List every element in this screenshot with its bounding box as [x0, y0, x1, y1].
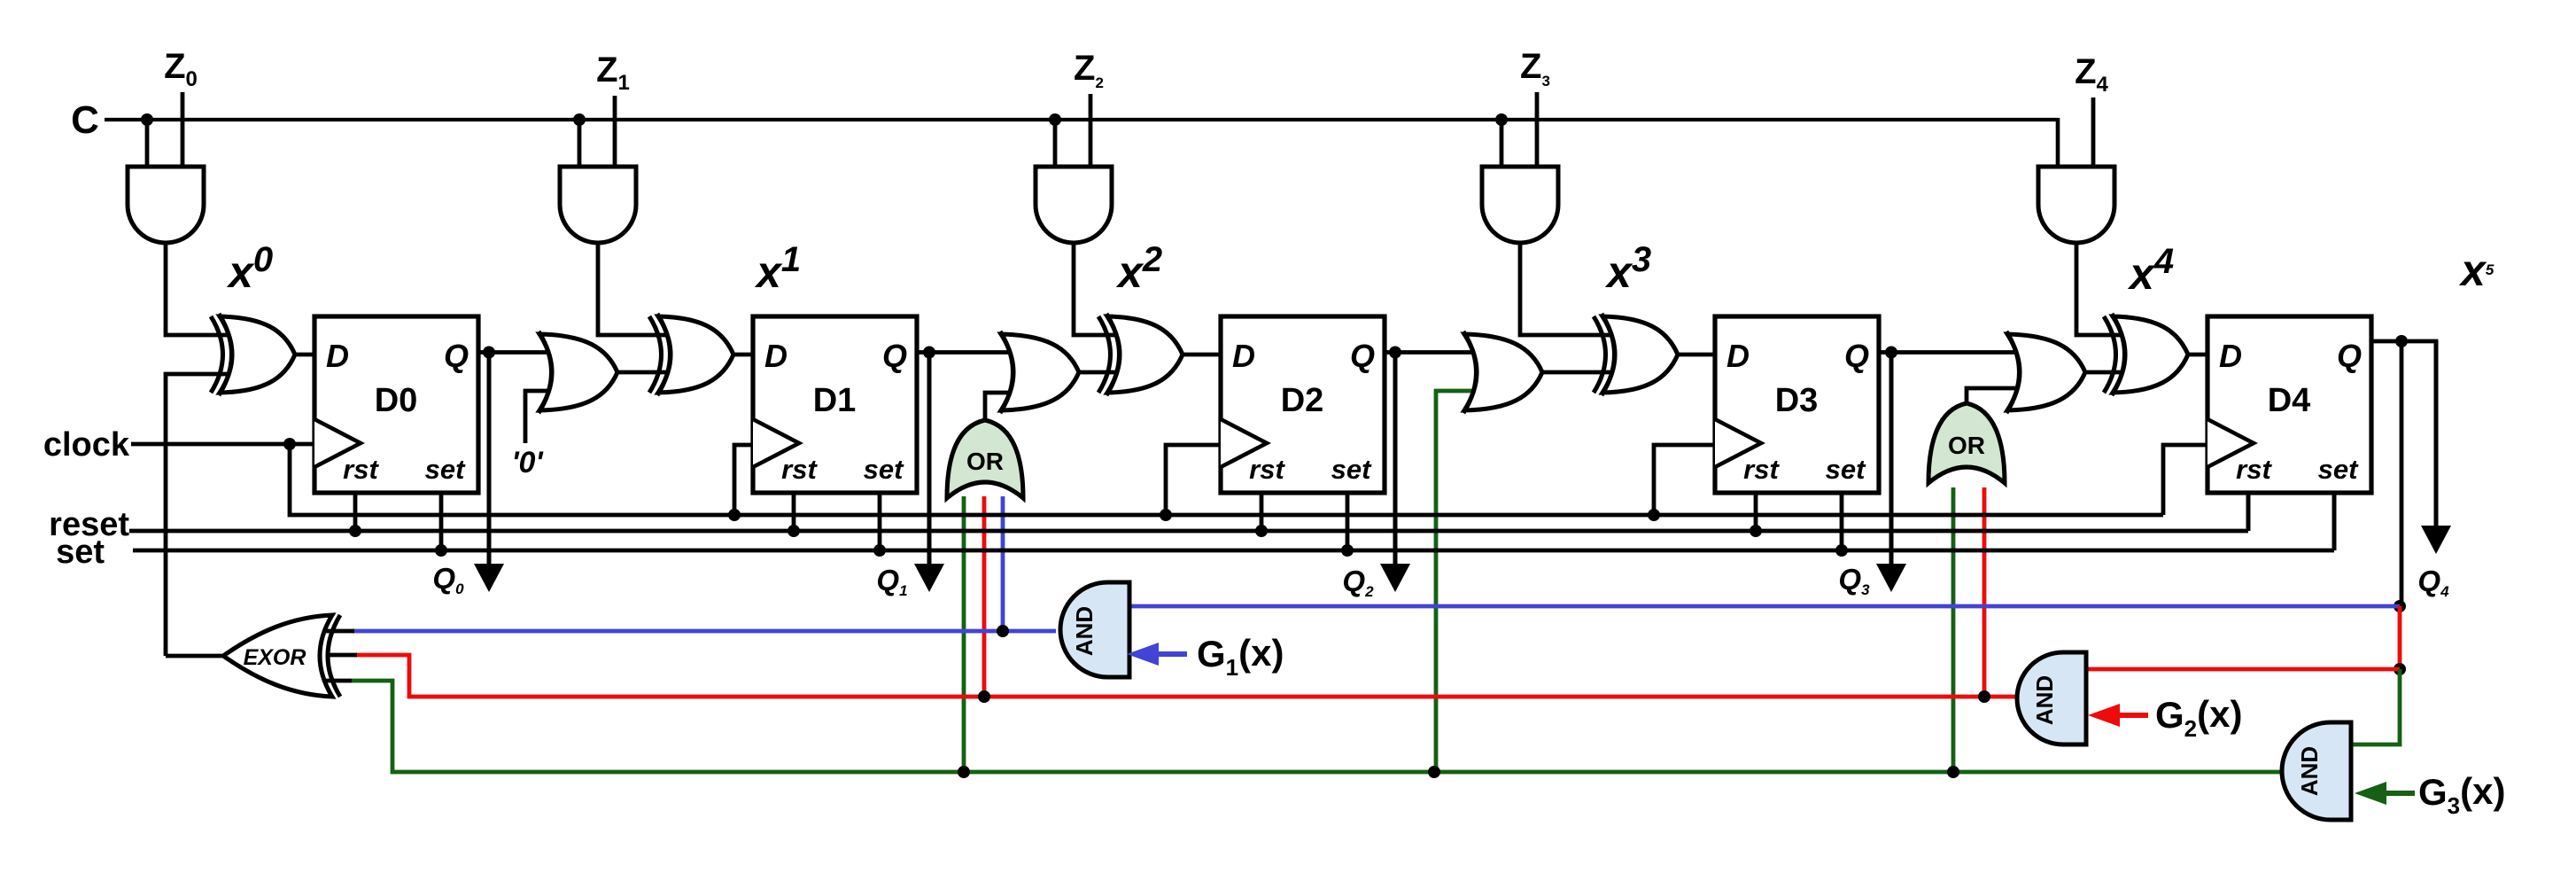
wire clock riser D3 [1654, 445, 1715, 515]
wire red tap to OR7 [1982, 487, 1987, 697]
svg-text:G2(x): G2(x) [2155, 693, 2242, 742]
wire Q1 to OR2 [929, 350, 1024, 355]
wire OR1 const input [525, 391, 559, 443]
wire set end [2332, 493, 2337, 550]
svg-text:rst: rst [2236, 454, 2272, 485]
svg-text:Q: Q [2337, 338, 2362, 374]
svg-text:D0: D0 [375, 382, 418, 419]
AND gate U2 [560, 167, 636, 243]
wire set pin D3 [1840, 493, 1844, 550]
AND gate G1 [1060, 582, 1129, 677]
wire green bus [352, 681, 2282, 772]
wire Q0 to OR1 [489, 350, 563, 355]
wire OR3 to XOR [1542, 370, 1627, 375]
wire Q1 output [917, 350, 929, 355]
junction C to U1 [141, 113, 153, 126]
svg-text:set: set [864, 454, 904, 485]
svg-text:rst: rst [1743, 454, 1780, 485]
wire green tap to OR3 [1436, 391, 1486, 772]
wire rst pin D4 [2246, 493, 2251, 531]
wire C elbow into U5 [2056, 118, 2060, 168]
wire Q2 to OR3 [1395, 350, 1487, 355]
svg-text:Q: Q [882, 338, 907, 374]
svg-text:Q: Q [1844, 338, 1869, 374]
wire X1 to D0 [295, 353, 314, 357]
wire OR6 output [985, 393, 1022, 420]
OR gate OR6 [947, 420, 1023, 498]
wire clock riser D2 [1166, 445, 1221, 515]
wire U4 output [1520, 241, 1627, 335]
wire set [133, 549, 2334, 553]
wire red bus [356, 655, 2015, 697]
svg-text:set: set [2318, 454, 2359, 485]
XOR gate X4 [1594, 314, 1678, 395]
wire Q2 arrow [1380, 353, 1410, 593]
node Z2 [1074, 49, 1104, 91]
wire clock chain [290, 444, 2163, 515]
wire Q4 arrow [2421, 341, 2451, 554]
svg-text:D: D [764, 338, 788, 374]
node x1 [754, 240, 801, 297]
wire G1 upper input [1129, 604, 2400, 609]
flip-flop D1 [753, 316, 917, 493]
wire blue tap to OR6 [1001, 496, 1005, 631]
wire EXOR output [166, 654, 225, 659]
junction reset D1 [788, 525, 800, 537]
junction clock D3 [1648, 509, 1660, 521]
node C [71, 98, 2058, 142]
node Q1 [876, 564, 907, 599]
OR gate OR3 [1463, 331, 1542, 413]
wire clock [131, 442, 314, 447]
wire rst pin D2 [1260, 493, 1264, 531]
wire G1 arrow [1127, 643, 1187, 666]
OR gate OR2 [1000, 331, 1079, 413]
wire Z1 [613, 96, 617, 168]
wire U3 output [1074, 241, 1132, 335]
svg-text:Q: Q [1350, 338, 1375, 374]
wire blue bus [353, 629, 1056, 634]
junction red tap OR6 [978, 690, 990, 703]
wire Q4 to red [2398, 606, 2402, 669]
svg-text:set: set [1826, 454, 1866, 485]
node x5 [2458, 246, 2495, 295]
junction Q3 [1885, 347, 1897, 359]
wire clock riser D1 [734, 445, 753, 515]
node Q2 [1342, 565, 1374, 600]
node Z3 [1520, 47, 1550, 90]
svg-text:D: D [326, 338, 349, 374]
wire G3 arrow [2355, 782, 2415, 805]
junction reset D3 [1750, 525, 1762, 537]
junction green tap OR3 [1428, 766, 1440, 778]
wire OR7 output [1967, 388, 2029, 403]
junction clock [283, 438, 296, 450]
junction C to U2 [573, 113, 586, 126]
junction Q1 [923, 347, 935, 359]
wire Q3 output [1879, 350, 1891, 355]
svg-text:D: D [1232, 338, 1255, 374]
svg-text:D: D [2219, 338, 2242, 374]
wire red tap to OR6 [982, 496, 987, 697]
OR gate OR1 [539, 331, 617, 413]
junction Q0 [483, 347, 495, 359]
svg-text:rst: rst [1249, 454, 1285, 485]
wire Q3 arrow [1876, 353, 1906, 593]
node x0 [226, 240, 273, 297]
node Z1 [596, 51, 630, 95]
flip-flop D4 [2207, 316, 2371, 493]
wire set pin D0 [439, 493, 444, 550]
svg-text:C: C [71, 98, 99, 142]
wire Z0 [181, 92, 185, 168]
wire G2 arrow [2088, 704, 2148, 727]
node Q0 [432, 562, 464, 597]
flip-flop D0 [314, 316, 478, 493]
junction C to U4 [1495, 113, 1508, 126]
XOR gate X1 [211, 314, 295, 395]
junction set D3 [1835, 544, 1848, 557]
junction clock D2 [1160, 509, 1172, 521]
node clock [43, 426, 130, 464]
wire U2 output [598, 241, 683, 335]
wire rst pin D0 [353, 493, 358, 531]
AND gate U5 [2038, 167, 2114, 243]
wire Z2 [1089, 94, 1093, 168]
node Q3 [1838, 563, 1870, 598]
AND gate G2 [2017, 652, 2086, 744]
node x4 [2127, 242, 2174, 299]
svg-text:set: set [425, 454, 466, 485]
XOR gate X2 [649, 314, 733, 395]
wire U1 output [166, 241, 244, 335]
wire X3 to D2 [1183, 353, 1221, 357]
node x3 [1604, 240, 1651, 297]
wire reset end [2246, 493, 2251, 531]
wire rst pin D1 [792, 493, 796, 531]
wire reset [129, 529, 2248, 534]
svg-text:rst: rst [781, 454, 818, 485]
wire green tap to OR6 [962, 496, 966, 772]
junction C to U3 [1049, 113, 1061, 126]
node G3(x) [2418, 770, 2505, 819]
node Q4 [2417, 565, 2449, 600]
wire rst pin D3 [1754, 493, 1758, 531]
node G2(x) [2155, 693, 2242, 742]
node x2 [1115, 240, 1162, 297]
svg-text:D1: D1 [813, 382, 857, 419]
wire Q4 down [2400, 341, 2404, 606]
wire C pin U4 [1500, 120, 1504, 168]
wire clock riser D4 [2163, 445, 2207, 515]
svg-text:Q: Q [444, 338, 469, 374]
svg-text:'0': '0' [511, 446, 544, 479]
svg-text:clock: clock [43, 426, 130, 464]
svg-text:G1(x): G1(x) [1197, 632, 1284, 681]
svg-text:D4: D4 [2268, 382, 2311, 419]
junction green tap OR7 [1947, 766, 1959, 778]
junction reset D2 [1255, 525, 1268, 537]
wire red to green [2351, 669, 2400, 744]
junction Q4 [2395, 335, 2408, 347]
svg-text:AND: AND [2296, 746, 2323, 796]
junction green tap OR6 [958, 766, 970, 778]
junction clock D1 [728, 509, 741, 521]
wire set pin D1 [878, 493, 882, 550]
AND gate U4 [1482, 167, 1558, 243]
wire Z4 [2091, 97, 2096, 168]
wire C pin U3 [1053, 120, 1058, 168]
wire Q4 output [2371, 341, 2436, 523]
wire OR1 to XOR [617, 370, 683, 375]
junction Q2 [1389, 347, 1401, 359]
wire X5 to D4 [2188, 353, 2207, 357]
flip-flop D3 [1715, 316, 1879, 493]
svg-text:D3: D3 [1775, 382, 1819, 419]
wire OR4 to XOR [2085, 370, 2138, 375]
OR gate OR7 [1928, 403, 2005, 483]
wire Q0 output [478, 350, 489, 355]
AND gate U3 [1036, 167, 1112, 243]
junction Q4 blue [2394, 600, 2406, 612]
wire EXOR feedback [166, 374, 244, 656]
node reset [49, 506, 129, 543]
svg-text:D2: D2 [1281, 382, 1324, 419]
svg-text:AND: AND [1071, 606, 1098, 656]
node '0' [511, 446, 544, 479]
wire C pin U1 [145, 120, 150, 168]
junction set D2 [1341, 544, 1354, 557]
svg-text:EXOR: EXOR [244, 645, 306, 670]
wire set pin D4 [2332, 493, 2337, 550]
svg-text:G3(x): G3(x) [2418, 770, 2505, 819]
junction blue tap [997, 625, 1009, 637]
wire Q3 to OR4 [1891, 350, 2030, 355]
wire G2 upper input [2086, 667, 2400, 672]
junction red tap OR7 [1978, 690, 1990, 703]
XOR gate X3 [1098, 314, 1183, 395]
XOR gate X5 [2104, 314, 2188, 395]
svg-text:OR: OR [1948, 432, 1985, 459]
junction set D0 [435, 544, 447, 557]
wire EXOR input stubs [321, 631, 357, 681]
wire OR2 to XOR [1079, 370, 1132, 375]
svg-text:set: set [56, 534, 105, 571]
wire C pin U2 [578, 120, 582, 168]
wire X4 to D3 [1678, 353, 1715, 357]
junction reset D0 [349, 525, 361, 537]
OR gate OR4 [2006, 331, 2085, 413]
wire Q1 arrow [914, 353, 944, 593]
node Z4 [2075, 52, 2108, 97]
wire green tap to OR7 [1951, 487, 1956, 772]
svg-text:rst: rst [343, 454, 379, 485]
svg-text:AND: AND [2031, 675, 2058, 725]
wire set pin D2 [1346, 493, 1350, 550]
svg-text:OR: OR [966, 448, 1004, 475]
node set [56, 534, 105, 571]
junction set D1 [873, 544, 886, 557]
AND gate U1 [128, 167, 204, 243]
wire Q2 output [1385, 350, 1395, 355]
node Z0 [164, 47, 198, 91]
svg-text:D: D [1726, 338, 1750, 374]
wire Z3 [1535, 92, 1540, 168]
wire X2 to D1 [733, 353, 753, 357]
node G1(x) [1197, 632, 1284, 681]
wire U5 output [2076, 241, 2138, 335]
flip-flop D2 [1221, 316, 1385, 493]
AND gate G3 [2282, 722, 2351, 820]
wire Q0 arrow [474, 353, 504, 593]
XOR gate EXOR [223, 615, 340, 697]
junction red right [2394, 663, 2406, 675]
svg-text:set: set [1331, 454, 1372, 485]
